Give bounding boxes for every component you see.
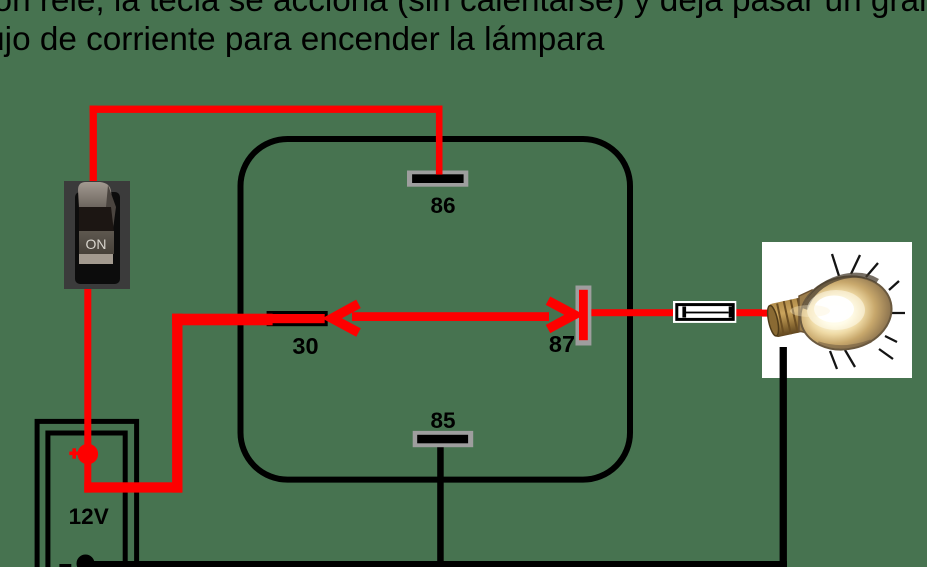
wire: lamp to ground bus bbox=[780, 347, 787, 567]
svg-text:12V: 12V bbox=[69, 504, 109, 529]
lamp L1 rays bbox=[830, 254, 905, 369]
lamp L1 screw base bbox=[765, 297, 809, 338]
wire: ground bus along bottom bbox=[86, 561, 787, 567]
fuse F1 body outline bbox=[677, 305, 733, 320]
wire: switch bottom to battery positive (red) bbox=[84, 287, 91, 457]
wire: junction down to heavy feed (red) bbox=[84, 454, 91, 493]
battery negative terminal dot bbox=[77, 555, 95, 567]
terminal 30 pad bbox=[267, 311, 328, 326]
wire: fuse to lamp (red) bbox=[734, 309, 775, 316]
wire: red stub into lamp plate bbox=[762, 310, 775, 317]
battery 12V outer case bbox=[37, 421, 137, 567]
arrowhead toward 87 bbox=[548, 301, 574, 329]
battery negative sign bbox=[59, 564, 71, 567]
wire: drop into terminal 86 (red) bbox=[436, 106, 443, 175]
battery 12V inner case bbox=[48, 433, 125, 567]
arrowhead toward 30 bbox=[332, 304, 359, 333]
wire: 87 to fuse (red) bbox=[591, 309, 676, 316]
node: battery positive junction bbox=[78, 444, 99, 465]
battery positive sign bbox=[69, 448, 79, 458]
svg-text:86: 86 bbox=[430, 193, 455, 218]
wire: heavy feed horizontal (red) bbox=[84, 482, 182, 492]
wire: heavy feed riser (red) bbox=[172, 314, 182, 493]
terminal 86 pad bbox=[407, 171, 468, 187]
wire: switch top riser (red) bbox=[90, 106, 97, 182]
fuse F1 right cap bbox=[729, 307, 733, 318]
terminal 87 pad bbox=[576, 286, 592, 346]
caption text bbox=[0, 0, 927, 59]
switch S1 rocker cap bbox=[78, 182, 116, 229]
svg-text:ON: ON bbox=[86, 236, 107, 252]
switch S1 ON face bbox=[79, 231, 114, 254]
switch S1 dark face bbox=[79, 207, 114, 232]
switch S1 panel bbox=[64, 181, 130, 289]
wire: heavy feed into terminal 30 (red) bbox=[172, 314, 273, 326]
lamp photo plate bbox=[762, 242, 912, 378]
terminal 30 contact (red) bbox=[270, 314, 325, 323]
wire: terminal 85 to ground bus bbox=[437, 446, 444, 567]
fuse F1 background plate bbox=[673, 301, 736, 323]
svg-text:85: 85 bbox=[430, 408, 455, 433]
svg-text:30: 30 bbox=[292, 333, 318, 359]
switch S1 knurled foot bbox=[79, 254, 113, 264]
terminal 85 pad bbox=[413, 431, 474, 447]
fuse F1 element bbox=[686, 312, 729, 314]
svg-text:87: 87 bbox=[549, 331, 575, 357]
wire: top horizontal run to relay (red) bbox=[90, 106, 443, 113]
relay K1 body bbox=[241, 139, 631, 480]
lamp L1 glow core bbox=[790, 290, 865, 330]
terminal 87 contact (red) bbox=[579, 290, 588, 340]
lamp L1 neck bbox=[799, 290, 816, 335]
lamp L1 glass bbox=[793, 268, 899, 359]
fuse F1 left cap bbox=[682, 307, 686, 318]
wire: contact arm 30-87 (red) bbox=[352, 312, 549, 321]
lamp wire inside plate bbox=[780, 347, 787, 378]
